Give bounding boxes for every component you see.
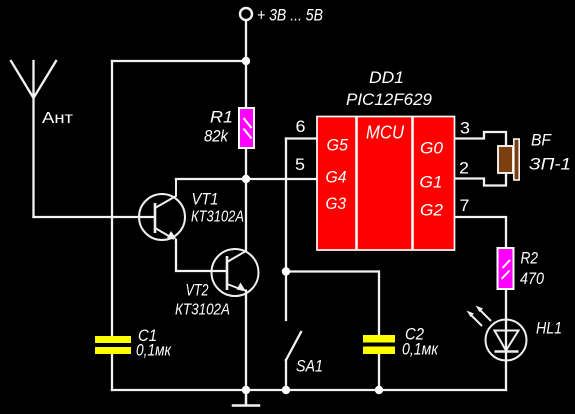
junction node ground: [242, 386, 250, 394]
junction node C2 bottom: [375, 386, 383, 394]
junction node SA1 C2 branch: [282, 267, 290, 275]
svg-text:3: 3: [460, 119, 470, 138]
svg-text:7: 7: [460, 196, 470, 215]
svg-text:КТ3102А: КТ3102А: [191, 209, 244, 226]
ground rail: [112, 389, 506, 391]
wire pin 7 to R2: [454, 217, 506, 248]
wire through HL1 to ground rail: [505, 320, 507, 390]
wire C2 to ground rail: [378, 354, 380, 390]
svg-text:HL1: HL1: [536, 319, 562, 338]
wire power terminal drop: [245, 21, 247, 62]
svg-text:2: 2: [459, 159, 469, 178]
svg-text:Ант: Ант: [42, 110, 74, 127]
wire pin 6 jog down to switch: [285, 139, 287, 321]
junction node SA1 bottom: [282, 386, 290, 394]
wire supply drop to C1: [111, 61, 113, 336]
svg-text:SA1: SA1: [296, 357, 323, 376]
transistor VT2: [212, 249, 259, 296]
svg-text:ЗП-1: ЗП-1: [529, 155, 571, 174]
junction node R1 bottom: [242, 175, 250, 183]
svg-text:R1: R1: [210, 108, 233, 127]
capacitor C2: [363, 335, 395, 354]
svg-text:0,1мк: 0,1мк: [402, 340, 439, 359]
LED HL1: [467, 306, 527, 361]
svg-text:G4: G4: [326, 168, 347, 187]
svg-text:PIC12F629: PIC12F629: [346, 90, 433, 109]
wire C1 to ground rail: [111, 354, 113, 390]
svg-text:0,1мк: 0,1мк: [136, 341, 172, 360]
transistor VT1: [139, 179, 185, 240]
wire SA1 to ground rail: [285, 360, 287, 390]
svg-text:470: 470: [520, 269, 544, 288]
wire antenna to VT1 base: [34, 216, 155, 218]
svg-text:+ 3В ... 5В: + 3В ... 5В: [257, 6, 323, 25]
svg-text:R2: R2: [521, 249, 539, 268]
wire pin 2 to buzzer: [454, 174, 506, 186]
svg-text:G0: G0: [420, 139, 444, 158]
wire pin 6: [286, 137, 317, 139]
power terminal: [240, 8, 252, 20]
ground symbol: [233, 390, 259, 406]
wire branch to C2: [286, 272, 379, 336]
svg-text:BF: BF: [531, 131, 552, 150]
wire top rail to R1: [245, 61, 247, 108]
svg-text:6: 6: [296, 117, 306, 136]
wire collector net to MCU pin 5: [176, 178, 317, 180]
resistor R2: [498, 248, 514, 289]
svg-text:G2: G2: [420, 201, 444, 220]
antenna: [11, 61, 56, 217]
svg-text:G5: G5: [327, 136, 349, 155]
wire pin 3 to buzzer: [454, 132, 506, 145]
wire node to VT2 collector: [245, 179, 247, 251]
wire R2 to HL1: [505, 289, 507, 320]
wire top rail: [112, 60, 246, 62]
svg-text:G1: G1: [420, 173, 443, 192]
svg-text:MCU: MCU: [366, 123, 405, 143]
wire VT2 emitter to ground rail: [245, 291, 247, 391]
resistor R1: [239, 108, 254, 148]
svg-text:G3: G3: [326, 194, 347, 213]
svg-text:5: 5: [295, 155, 305, 174]
junction node top rail: [242, 57, 250, 65]
IC DD1 MCU block: [317, 117, 455, 251]
wire R1 to node: [245, 148, 247, 179]
switch SA1 blade: [286, 332, 301, 360]
svg-text:82k: 82k: [204, 127, 229, 146]
svg-text:VT1: VT1: [192, 190, 219, 209]
wire VT1 emitter to VT2 base: [176, 240, 226, 271]
buzzer BF: [498, 139, 519, 180]
svg-text:VT2: VT2: [186, 281, 209, 300]
svg-text:DD1: DD1: [369, 68, 404, 87]
svg-text:КТ3102А: КТ3102А: [175, 302, 230, 319]
capacitor C1: [95, 336, 131, 354]
